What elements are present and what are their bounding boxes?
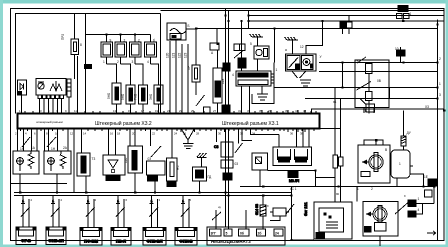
resistor ballast: [213, 68, 222, 114]
bus tick labels: [31, 198, 222, 209]
svg-text:штекерный разъем: штекерный разъем: [36, 120, 63, 124]
wire band to K4 c: [44, 129, 46, 152]
svg-text:бст 121: бст 121: [303, 201, 308, 216]
svg-text:хс: хс: [336, 192, 340, 196]
relay K6b: [221, 160, 233, 168]
relay unit K2: [286, 54, 317, 71]
wire K8 pin a: [363, 108, 365, 114]
svg-text:10: 10: [55, 132, 59, 136]
svg-text:122: 122: [178, 52, 182, 58]
resistor R4: [154, 85, 163, 114]
wire ECU pin2: [249, 86, 251, 114]
top bus wires right half: [161, 10, 445, 12]
fuel sender B3: [391, 150, 413, 178]
relay K4: [44, 151, 71, 174]
svg-text:1: 1: [399, 162, 401, 166]
svg-text:33: 33: [247, 109, 251, 113]
flasher K7: [252, 153, 268, 186]
svg-text:128: 128: [221, 78, 225, 84]
ground G1: [250, 34, 264, 46]
amplifier U2: [103, 155, 125, 181]
wire band to U2: [108, 129, 110, 156]
wire M2 feed: [356, 187, 358, 202]
tiny labels: [20, 12, 441, 212]
wire pair right b: [340, 99, 342, 158]
svg-text:2: 2: [124, 39, 126, 43]
svg-text:8: 8: [80, 43, 82, 47]
wire riser right: [433, 187, 435, 204]
relay coil K0b: [234, 44, 245, 51]
breaker S12 top: [340, 16, 352, 35]
svg-text:121: 121: [172, 52, 176, 58]
relay K1: [254, 46, 269, 71]
horn B1: [167, 23, 195, 40]
svg-text:31: 31: [238, 109, 242, 113]
svg-text:14: 14: [83, 132, 87, 136]
fuse F4: [145, 35, 157, 65]
svg-text:НЧ: НЧ: [176, 166, 180, 170]
svg-text:9НБ: 9НБ: [121, 94, 125, 100]
connector X6: [223, 173, 232, 180]
horn unit B2: [193, 167, 207, 193]
wire bst h: [292, 239, 315, 241]
wire sender right: [410, 174, 424, 187]
link line under relays: [11, 183, 68, 185]
svg-text:2: 2: [357, 60, 359, 64]
wire band to S3: [150, 129, 152, 147]
resistor R5: [77, 153, 90, 176]
svg-text:23: 23: [179, 109, 183, 113]
svg-text:32: 32: [240, 132, 244, 136]
node Y junction: [181, 129, 195, 144]
washer unit A2: [314, 202, 352, 239]
svg-text:11: 11: [74, 109, 77, 113]
wire drop x225: [225, 9, 227, 114]
ground G3: [292, 71, 311, 86]
connector X8: [333, 155, 343, 168]
fuse PR2: [71, 39, 79, 55]
ground G2: [285, 37, 299, 54]
svg-text:43: 43: [303, 109, 307, 113]
lamp L4: [111, 196, 131, 245]
wire bottom h: [240, 186, 434, 188]
svg-text:НМ3МЗЦБЗМНАТ3: НМ3МЗЦБЗМНАТ3: [211, 239, 251, 244]
switch S6: [234, 51, 243, 59]
lamp L6: [175, 196, 197, 245]
arrow mark: [427, 231, 436, 235]
relay K5: [147, 161, 166, 193]
wire to washer box: [316, 177, 336, 179]
switch S5: [196, 95, 205, 106]
svg-text:1Б: 1Б: [363, 109, 367, 113]
wire band to R5: [81, 129, 83, 154]
svg-text:120: 120: [124, 157, 128, 163]
wire ECU pin1: [241, 86, 243, 114]
wire to PR2 top: [74, 14, 76, 39]
teal border top: [0, 0, 448, 4]
wire band to K4 d: [67, 129, 69, 152]
wire pair right of PR2: [77, 56, 79, 114]
small box on wire y110: [360, 99, 375, 113]
strip cell labels: [211, 232, 279, 245]
svg-text:ПВ-Л: ПВ-Л: [116, 239, 126, 244]
svg-text:1Н: 1Н: [20, 147, 25, 151]
svg-text:24: 24: [174, 132, 178, 136]
svg-text:03: 03: [235, 162, 239, 166]
svg-text:17: 17: [141, 109, 145, 113]
svg-text:13: 13: [113, 109, 117, 113]
svg-text:2: 2: [117, 60, 119, 64]
svg-text:36: 36: [290, 132, 294, 136]
svg-text:ПР2: ПР2: [61, 34, 65, 40]
right inner vertical wire: [437, 20, 439, 241]
connector X21b: [222, 105, 230, 112]
wire band to S1: [23, 129, 25, 152]
svg-text:39: 39: [285, 109, 289, 113]
wire band to U2 b: [115, 129, 117, 156]
inner box right edge: [160, 14, 162, 114]
band bottom ticks: [18, 129, 315, 133]
wire from PR2 bottom: [74, 55, 76, 80]
svg-text:3: 3: [439, 93, 441, 97]
svg-text:37: 37: [268, 109, 272, 113]
wire drop x228: [228, 11, 230, 114]
svg-text:ФНБ-1П: ФНБ-1П: [48, 238, 64, 243]
inner top-left box edge: [16, 14, 161, 114]
svg-text:1Н: 1Н: [51, 147, 56, 151]
svg-text:а: а: [285, 48, 287, 52]
svg-text:41: 41: [295, 109, 299, 113]
drop to cup4: [308, 129, 310, 148]
fuse F1: [101, 33, 113, 64]
wire strip b2: [225, 129, 227, 228]
svg-text:16: 16: [110, 132, 114, 136]
connector X13: [84, 64, 92, 69]
band labels: [36, 120, 279, 127]
svg-text:1: 1: [103, 60, 105, 64]
wire coil to ballast: [217, 50, 219, 68]
wire R5 to bus: [85, 176, 87, 193]
svg-text:ПФ-ВМ: ПФ-ВМ: [84, 239, 99, 244]
svg-text:х1: х1: [333, 100, 337, 104]
switch S10 top right: [397, 6, 410, 22]
fuse F10: [397, 47, 406, 63]
wiper motor M1: [358, 140, 390, 183]
svg-text:9: 9: [110, 39, 112, 43]
teal border bottom: [0, 244, 448, 247]
ECU A1: [236, 71, 274, 86]
fuse F5: [192, 29, 200, 96]
teal border right: [446, 0, 448, 247]
wire x342: [342, 63, 344, 88]
svg-text:C3: C3: [214, 145, 218, 149]
svg-text:1: 1: [357, 187, 359, 191]
svg-text:28: 28: [196, 132, 200, 136]
svg-text:22: 22: [152, 132, 156, 136]
svg-text:2: 2: [138, 39, 140, 43]
long wire B: [175, 40, 177, 114]
ground G5: [183, 144, 194, 149]
svg-text:5: 5: [250, 42, 252, 46]
resistor R8: [260, 196, 266, 229]
wire riser: [315, 171, 317, 187]
connector X10: [270, 204, 294, 216]
svg-text:12: 12: [70, 132, 74, 136]
wiper motor unit M2: [363, 202, 398, 247]
resistor R2: [126, 85, 135, 114]
svg-text:25: 25: [191, 109, 195, 113]
svg-text:1: 1: [418, 197, 420, 201]
long wire D: [187, 44, 189, 114]
band pin numbers bottom: [15, 132, 304, 136]
lighter unit E1: [273, 147, 312, 166]
svg-text:1: 1: [276, 68, 278, 72]
relay coil K0: [210, 43, 219, 50]
wire band to K4 b: [57, 129, 59, 152]
instrument cluster U1: [36, 79, 66, 96]
wire strip b: [228, 129, 230, 230]
connector X21a: [223, 63, 230, 71]
wire long x85: [85, 14, 87, 114]
teal border left: [0, 0, 3, 247]
svg-text:120: 120: [166, 52, 170, 58]
svg-text:4: 4: [232, 73, 234, 77]
svg-text:М3 ЛЧ: М3 ЛЧ: [289, 179, 299, 183]
wires U1 to band: [40, 97, 69, 114]
switch S9: [212, 212, 221, 220]
connector band X3.2/X3.1: [18, 114, 320, 129]
svg-text:3ГГ: 3ГГ: [211, 232, 217, 236]
wire pair right a: [334, 88, 336, 156]
svg-text:18: 18: [117, 132, 121, 136]
band pin numbers top: [19, 109, 307, 113]
svg-text:3НБ: 3НБ: [149, 94, 153, 100]
wire band to K3: [31, 129, 33, 152]
svg-text:7НБ: 7НБ: [134, 94, 138, 100]
switch S1: [22, 137, 30, 147]
diode box: [18, 80, 27, 114]
wire long x74: [73, 129, 75, 193]
svg-text:0б: 0б: [240, 232, 244, 236]
svg-text:б: б: [153, 39, 155, 43]
bottom bus double line: [14, 192, 292, 194]
svg-text:5: 5: [226, 232, 228, 236]
drop to cup1: [278, 135, 280, 148]
svg-text:35: 35: [259, 109, 263, 113]
resistor R6: [167, 129, 178, 187]
svg-text:5НБ: 5НБ: [107, 93, 111, 99]
wire pair right a2: [334, 168, 336, 202]
connector X5: [204, 107, 211, 113]
connector X7: [288, 172, 299, 184]
relay K3: [13, 151, 39, 174]
switch S3: [151, 146, 161, 157]
capacitor C1 unit: [128, 129, 143, 193]
svg-text:1: 1: [439, 82, 441, 86]
resistor R3: [139, 85, 148, 114]
relay K6: [214, 129, 233, 158]
wire band to K3 pin2: [36, 129, 38, 152]
svg-text:21: 21: [167, 109, 171, 113]
jog wires fuse row to resistors: [107, 64, 117, 83]
svg-text:614 03: 614 03: [255, 204, 259, 215]
svg-text:15: 15: [128, 109, 132, 113]
fuse F3: [130, 33, 142, 64]
wire strip a: [215, 210, 217, 229]
svg-text:2б: 2б: [258, 232, 262, 236]
svg-text:хС 1: хС 1: [290, 187, 297, 191]
svg-text:Т3: Т3: [92, 157, 96, 161]
wire K8 pin b: [373, 108, 375, 114]
ECU enclosure: [252, 63, 274, 104]
svg-text:4: 4: [147, 60, 149, 64]
fuse F2: [115, 33, 127, 64]
switch S11: [395, 203, 408, 215]
wire K7 to E1: [268, 170, 316, 172]
svg-text:29: 29: [222, 109, 226, 113]
heater hatch: [197, 153, 207, 167]
svg-text:ПР: ПР: [187, 66, 191, 70]
wire K3 to bus: [19, 174, 21, 193]
svg-text:10: 10: [395, 47, 399, 51]
wire K4 to bus: [56, 174, 58, 193]
svg-text:Б: Б: [188, 24, 190, 28]
connector X12: [425, 190, 433, 197]
lamp L1: [16, 196, 36, 245]
wire drop x241: [241, 21, 243, 71]
svg-text:3: 3: [132, 60, 134, 64]
svg-text:2: 2: [371, 187, 373, 191]
svg-text:ФПВ-ВЛ: ФПВ-ВЛ: [146, 239, 162, 244]
connector X11: [428, 179, 437, 186]
wire band to K4: [48, 129, 50, 152]
svg-text:ФГ-В: ФГ-В: [21, 238, 31, 243]
drop to cup2: [296, 129, 298, 148]
svg-text:В: В: [385, 148, 387, 152]
wire pair right b2: [340, 166, 342, 202]
svg-text:1Е: 1Е: [424, 175, 428, 179]
pin comb U1 bottom: [38, 95, 63, 98]
svg-text:24: 24: [275, 232, 279, 236]
svg-text:26: 26: [183, 132, 187, 136]
pin strip U1 right: [67, 79, 71, 97]
svg-text:0З: 0З: [148, 157, 152, 161]
fuse F11: [408, 200, 434, 207]
svg-text:1: 1: [410, 12, 412, 16]
svg-text:19: 19: [155, 109, 159, 113]
wire coil feed: [216, 29, 218, 44]
resistor R1: [112, 83, 121, 114]
svg-text:34: 34: [252, 132, 256, 136]
svg-text:Штекерный разъем Х3.1: Штекерный разъем Х3.1: [222, 120, 279, 127]
connector strip X9: [207, 227, 285, 245]
drop to cup3: [302, 129, 304, 148]
wire into K2: [306, 21, 323, 54]
svg-text:Х3: Х3: [425, 105, 429, 109]
svg-text:4: 4: [418, 208, 420, 212]
long wire C: [181, 44, 183, 114]
right side long wires: [319, 62, 438, 64]
relay K8: [355, 57, 389, 114]
band bottom extension: [320, 128, 341, 130]
wire band to K3 pin: [17, 129, 19, 152]
fuse F12: [408, 204, 423, 218]
wire L-link: [270, 216, 280, 221]
wire K8 right pin: [389, 88, 391, 99]
lamp L2: [46, 196, 66, 245]
svg-text:12: 12: [300, 45, 304, 49]
svg-text:ФПН-В: ФПН-В: [179, 239, 193, 244]
svg-text:38: 38: [300, 132, 304, 136]
wire band jog: [251, 129, 280, 135]
lamp L3: [80, 196, 102, 245]
long wire A: [169, 41, 171, 114]
svg-text:123: 123: [184, 52, 188, 58]
ground G4: [257, 86, 268, 100]
band top ticks: [22, 110, 317, 114]
switch S13: [235, 129, 243, 154]
svg-text:0В: 0В: [377, 79, 381, 83]
wire S6 down: [239, 44, 241, 51]
svg-text:30: 30: [218, 132, 222, 136]
svg-text:27: 27: [213, 109, 217, 113]
lamp L5: [143, 196, 166, 245]
fuse bus: [86, 34, 151, 36]
resistor comb R7: [401, 111, 406, 151]
wire bst: [291, 187, 293, 241]
fuse F6 black: [238, 58, 246, 68]
wire box T bottom: [396, 178, 398, 187]
wire band to C box: [242, 129, 252, 141]
switch S2: [47, 137, 56, 147]
svg-text:2: 2: [439, 57, 441, 61]
wire strip c: [245, 210, 247, 229]
svg-text:Штекерный разъем Х3.2: Штекерный разъем Х3.2: [95, 120, 152, 127]
svg-text:20: 20: [132, 132, 136, 136]
